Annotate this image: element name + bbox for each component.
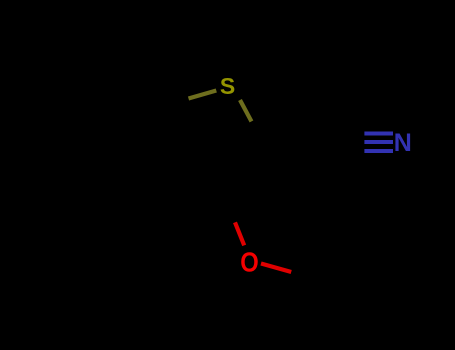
benzene ring (carbon bonds, black)	[40, 72, 161, 210]
thiophene carbon bonds (black)	[160, 136, 263, 199]
bond C3-O : oxygen half (red)	[235, 222, 244, 245]
bond S-C2 : sulfur half (olive)	[240, 100, 252, 122]
bond S-C2 : carbon half (black)	[252, 122, 264, 144]
bond O-CH3 : oxygen half (red)	[261, 264, 291, 273]
bond C7a-S : sulfur half (olive)	[189, 91, 217, 99]
triple bond C#N : nitrogen halves (blue)	[364, 134, 393, 152]
svg-text:O: O	[240, 247, 259, 278]
bond C7a-S : carbon half (black)	[161, 99, 189, 107]
bond O-CH3 : carbon half (black)	[291, 272, 321, 281]
svg-text:S: S	[220, 73, 235, 99]
bond C3-O : carbon half (black)	[226, 199, 235, 222]
triple bond C#N : carbon halves (black)	[337, 134, 365, 152]
svg-text:N: N	[394, 129, 412, 157]
bond C2-C(nitrile) (black)	[263, 142, 337, 143]
